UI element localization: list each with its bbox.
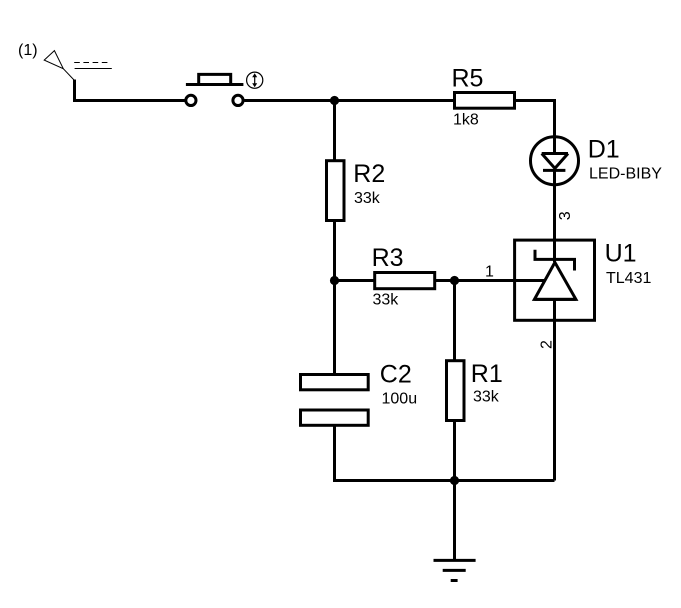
svg-text:(1): (1) bbox=[18, 42, 38, 59]
svg-text:R1: R1 bbox=[471, 360, 503, 388]
svg-text:1: 1 bbox=[485, 263, 494, 280]
svg-text:R3: R3 bbox=[372, 244, 404, 272]
svg-text:D1: D1 bbox=[588, 136, 620, 164]
svg-text:TL431: TL431 bbox=[606, 270, 651, 287]
svg-text:33k: 33k bbox=[473, 389, 500, 406]
svg-text:R2: R2 bbox=[353, 160, 385, 188]
svg-text:U1: U1 bbox=[605, 240, 637, 268]
svg-text:33k: 33k bbox=[373, 291, 400, 308]
svg-text:R5: R5 bbox=[452, 65, 484, 93]
svg-text:2: 2 bbox=[538, 340, 555, 349]
svg-text:100u: 100u bbox=[382, 391, 418, 408]
svg-text:C2: C2 bbox=[380, 360, 412, 388]
svg-text:1k8: 1k8 bbox=[453, 111, 479, 128]
svg-text:LED-BIBY: LED-BIBY bbox=[589, 166, 662, 183]
svg-text:33k: 33k bbox=[354, 190, 381, 207]
svg-text:3: 3 bbox=[557, 211, 574, 220]
